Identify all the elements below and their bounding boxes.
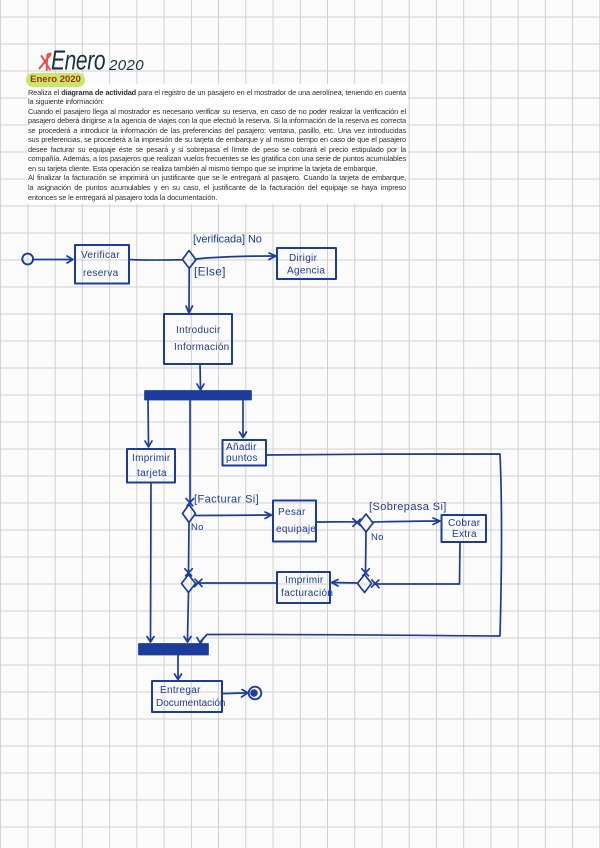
svg-text:[Facturar Si]: [Facturar Si] [194,494,259,506]
svg-text:Entregar: Entregar [160,685,201,696]
svg-text:puntos: puntos [226,453,258,464]
svg-text:Añadir: Añadir [226,442,257,453]
svg-text:Agencia: Agencia [287,266,325,277]
svg-text:No: No [371,532,384,543]
svg-text:Verificar: Verificar [81,250,120,261]
svg-text:2020: 2020 [108,57,144,74]
svg-text:reserva: reserva [83,268,119,279]
svg-text:Pesar: Pesar [278,507,306,518]
svg-text:Extra: Extra [452,529,477,540]
svg-text:Enero: Enero [51,46,105,77]
svg-text:Cobrar: Cobrar [448,518,481,529]
svg-text:Introducir: Introducir [176,325,221,336]
svg-text:Información: Información [174,342,230,353]
svg-text:equipaje: equipaje [276,524,316,535]
svg-text:Imprimir: Imprimir [132,453,171,464]
svg-text:[Sobrepasa Si]: [Sobrepasa Si] [369,501,447,513]
svg-text:Documentación: Documentación [156,698,225,709]
svg-text:tarjeta: tarjeta [137,468,167,479]
svg-text:No: No [191,522,204,533]
svg-text:Imprimir: Imprimir [285,575,324,586]
svg-text:facturación: facturación [281,588,333,599]
svg-text:[Else]: [Else] [194,265,226,279]
svg-text:[verificada] No: [verificada] No [193,234,262,246]
svg-text:Dirigir: Dirigir [289,253,318,264]
